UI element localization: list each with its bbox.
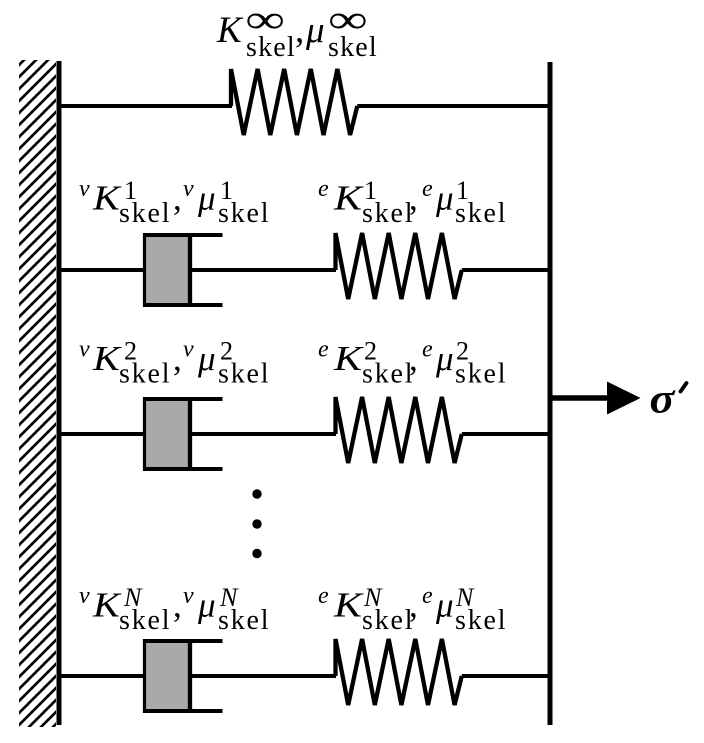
svg-text:v: v: [183, 176, 194, 202]
svg-text:μ: μ: [197, 179, 216, 218]
svg-text:K: K: [92, 179, 122, 218]
svg-text:e: e: [422, 176, 433, 202]
svg-text:K: K: [333, 587, 365, 625]
svg-text:K: K: [92, 586, 122, 625]
svg-text:,: ,: [409, 339, 418, 378]
svg-text:skel: skel: [218, 359, 270, 390]
svg-text:e: e: [422, 337, 433, 363]
svg-text:μ: μ: [305, 10, 325, 51]
svg-text:skel: skel: [455, 359, 507, 390]
svg-text:,: ,: [173, 179, 182, 218]
svg-text:,: ,: [295, 10, 304, 51]
svg-text:μ: μ: [435, 339, 454, 378]
svg-text:,: ,: [173, 586, 182, 625]
svg-text:skel: skel: [218, 198, 270, 229]
svg-text:μ: μ: [435, 179, 454, 218]
svg-text:K: K: [92, 339, 122, 378]
svg-text:e: e: [318, 337, 329, 363]
svg-text:,: ,: [409, 586, 418, 625]
svg-text:v: v: [183, 337, 194, 363]
svg-text:skel: skel: [362, 198, 414, 229]
svg-text:skel: skel: [455, 605, 507, 636]
svg-text:skel: skel: [119, 359, 171, 390]
svg-text:skel: skel: [362, 359, 414, 390]
svg-text:v: v: [183, 583, 194, 609]
svg-text:K: K: [333, 180, 365, 218]
svg-text:skel: skel: [119, 198, 171, 229]
svg-text:v: v: [79, 337, 90, 363]
svg-text:K: K: [333, 340, 365, 378]
svg-text:skel: skel: [119, 605, 171, 636]
svg-text:K: K: [216, 10, 244, 51]
svg-text:μ: μ: [435, 586, 454, 625]
svg-text:skel: skel: [218, 605, 270, 636]
svg-text:μ: μ: [197, 586, 216, 625]
svg-text:e: e: [422, 583, 433, 609]
svg-text:σ: σ: [650, 375, 676, 422]
svg-text:μ: μ: [197, 339, 216, 378]
svg-text:skel: skel: [246, 32, 296, 63]
svg-text:v: v: [79, 176, 90, 202]
svg-text:,: ,: [173, 339, 182, 378]
svg-text:e: e: [318, 176, 329, 202]
svg-text:v: v: [79, 583, 90, 609]
svg-text:,: ,: [409, 179, 418, 218]
svg-text:skel: skel: [455, 198, 507, 229]
svg-text:e: e: [318, 583, 329, 609]
svg-text:skel: skel: [328, 32, 378, 63]
svg-text:skel: skel: [362, 605, 414, 636]
